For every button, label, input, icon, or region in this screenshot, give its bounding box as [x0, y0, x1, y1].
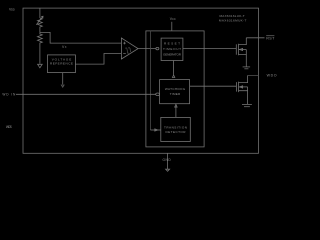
op-amp U1 comparator triangle: [121, 38, 138, 59]
ground below Q1: [243, 66, 251, 68]
op-amp internal glyph: [125, 48, 130, 54]
svg-text:VCC: VCC: [170, 17, 176, 21]
wire WD IN input: [16, 93, 156, 95]
wire WDO output: [248, 74, 259, 76]
transistor Q1 gate bar: [235, 44, 237, 54]
bubble at watchdog timer input: [156, 93, 160, 96]
transistor Q2 drain stub: [239, 75, 248, 82]
svg-text:WATCHDOG: WATCHDOG: [165, 87, 186, 91]
svg-text:TRANSITION: TRANSITION: [164, 125, 187, 129]
svg-text:TIMER: TIMER: [170, 92, 181, 96]
svg-text:WD IN: WD IN: [2, 93, 16, 97]
ground arrow below divider: [38, 64, 43, 68]
svg-text:DETECTOR: DETECTOR: [166, 130, 187, 134]
reset generator box: [161, 38, 183, 60]
wire arrow into transition detector: [150, 129, 160, 131]
wire internal vertical to transition detector: [149, 31, 151, 130]
transistor Q2 gate bar: [235, 82, 237, 92]
transition detector box: [161, 117, 191, 141]
wire reset gate drive: [183, 48, 236, 50]
op-amp plus sign: [123, 42, 126, 54]
bubble at reset generator input: [156, 47, 159, 49]
transistor Q1 channel bar: [238, 44, 240, 55]
watchdog timer box: [160, 80, 190, 104]
transistor Q2 body stub with arrow: [239, 86, 248, 88]
voltage reference box: [48, 55, 76, 73]
arrowhead into timer bottom: [175, 104, 177, 107]
transistor Q2 channel bar: [238, 82, 240, 93]
transistor Q2 source stub: [239, 91, 248, 105]
svg-text:TIMEOUT: TIMEOUT: [163, 47, 181, 51]
op-amp minus sign: [123, 53, 126, 55]
wire transition detector to timer (up): [175, 106, 177, 117]
svg-text:VDD: VDD: [9, 8, 15, 12]
wire comparator output to reset generator: [138, 48, 156, 50]
svg-text:MAX6316LUK-T: MAX6316LUK-T: [220, 14, 245, 18]
wire VCC stub: [171, 22, 173, 31]
svg-text:MAX6316MUK-T: MAX6316MUK-T: [219, 19, 247, 23]
wire timer to reset generator (up): [173, 61, 175, 75]
svg-text:RST: RST: [266, 36, 275, 40]
transistor Q1 drain stub: [239, 38, 247, 45]
resistor R1: [38, 18, 43, 32]
ground arrow GND pin: [166, 169, 170, 171]
ground arrow below reference: [61, 85, 64, 87]
svg-text:WDO: WDO: [267, 74, 277, 78]
transistor Q1 source stub: [239, 54, 247, 67]
wire VDD rail drop to R1: [39, 8, 41, 18]
wire node VX from divider tap to comparator + input: [40, 32, 122, 43]
wire WDO gate drive: [190, 85, 237, 87]
wire RST output: [246, 37, 264, 39]
digital core boundary box: [146, 31, 204, 147]
trim arrow on R1: [36, 16, 43, 25]
wire GND pin lead: [167, 153, 169, 169]
svg-text:WDS: WDS: [6, 125, 12, 129]
svg-text:VX: VX: [62, 45, 67, 49]
svg-text:GENERATOR: GENERATOR: [163, 52, 182, 56]
wire reference output to comparator - input: [75, 54, 121, 65]
svg-text:REFERENCE: REFERENCE: [50, 62, 73, 66]
IC outer boundary box: [23, 8, 259, 153]
ground below Q2: [242, 103, 252, 105]
svg-text:GND: GND: [163, 158, 172, 162]
transistor Q1 body stub with arrow: [239, 49, 247, 51]
resistor R2: [38, 32, 43, 63]
arrowhead between reset generator and timer: [172, 75, 174, 78]
wire reference ground lead: [62, 73, 64, 85]
